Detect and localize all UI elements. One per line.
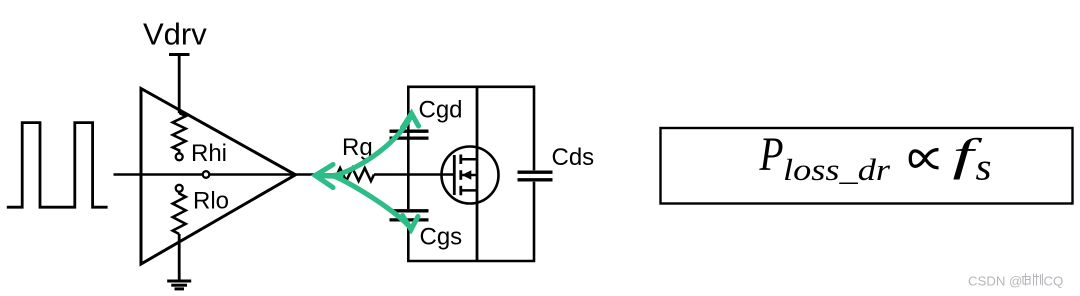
MOSFET Q1 body circle [442,147,499,204]
Vdrv supply terminal bar [169,53,190,56]
proportional-to symbol [910,150,938,168]
ground symbol [167,281,191,289]
MOSFET drain-source through line [476,87,479,261]
svg-text:P: P [759,128,784,181]
wire Vdrv to Rhi [178,55,181,114]
svg-text:Cds: Cds [552,144,595,171]
formula P_loss_dr [759,128,891,187]
formula box [661,128,1073,204]
resistor Rlo [173,192,186,234]
svg-text:Cgs: Cgs [420,223,463,250]
input square-wave signal [7,123,108,208]
resistor Rg [337,168,374,181]
node circle on output line [203,171,210,178]
svg-text:CSDN @: CSDN @ [968,274,1022,289]
watermark CJK glyph 剩 [1033,274,1043,286]
MOSFET source tap [461,189,477,192]
driver output wire (through triangle) [141,173,296,176]
wire driver apex to Rg [296,173,338,176]
wire input to driver [114,173,142,176]
green arrow curve to Cgs [334,176,418,230]
MOSFET gate bar [453,155,456,195]
node circle above Rlo [176,185,183,192]
MOSFET drain tap [461,158,477,161]
MOSFET body tap with arrow [462,174,477,177]
svg-text:Vdrv: Vdrv [143,17,207,52]
node circle below Rhi [176,153,183,160]
svg-text:Rlo: Rlo [193,188,229,215]
wire Rlo to ground [178,234,181,281]
MOSFET outer box (left edge with Cgd/Cgs gaps) [408,87,534,261]
capacitor Cds [518,172,553,180]
green arrow pointing to driver output [315,165,341,188]
green arrow curve to Cgd [334,114,419,176]
wire Rg to MOSFET gate [374,173,454,176]
capacitor Cgd [390,131,429,138]
MOSFET channel segments [459,155,462,196]
svg-text:CQ: CQ [1044,274,1064,289]
svg-text:loss_dr: loss_dr [783,152,891,187]
watermark CJK glyph 狗 [1022,274,1031,286]
svg-text:s: s [976,147,992,189]
watermark CSDN @狗剩CQ [968,274,1063,289]
formula f_s [953,130,992,189]
svg-text:Cgd: Cgd [419,96,463,123]
resistor Rhi [173,113,186,153]
op-amp driver triangle U1 [141,89,296,265]
svg-text:Rhi: Rhi [191,140,227,167]
capacitor Cgs [390,211,429,220]
